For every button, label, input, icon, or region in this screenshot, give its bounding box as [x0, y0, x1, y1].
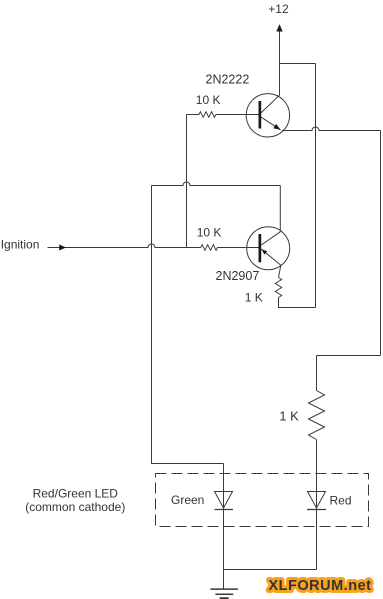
svg-text:10 K: 10 K	[197, 226, 222, 240]
svg-text:2N2907: 2N2907	[216, 269, 260, 283]
svg-text:Ignition: Ignition	[1, 237, 40, 251]
svg-text:XLFORUM.net: XLFORUM.net	[269, 578, 372, 594]
svg-text:Red: Red	[330, 494, 352, 508]
svg-text:Red/Green LED: Red/Green LED	[33, 486, 119, 500]
svg-text:+12: +12	[268, 2, 289, 16]
svg-text:1 K: 1 K	[245, 290, 263, 304]
svg-text:(common cathode): (common cathode)	[25, 500, 125, 514]
svg-text:10 K: 10 K	[196, 93, 221, 107]
svg-text:Green: Green	[171, 493, 204, 507]
svg-text:2N2222: 2N2222	[206, 72, 250, 86]
svg-text:1 K: 1 K	[279, 409, 299, 424]
